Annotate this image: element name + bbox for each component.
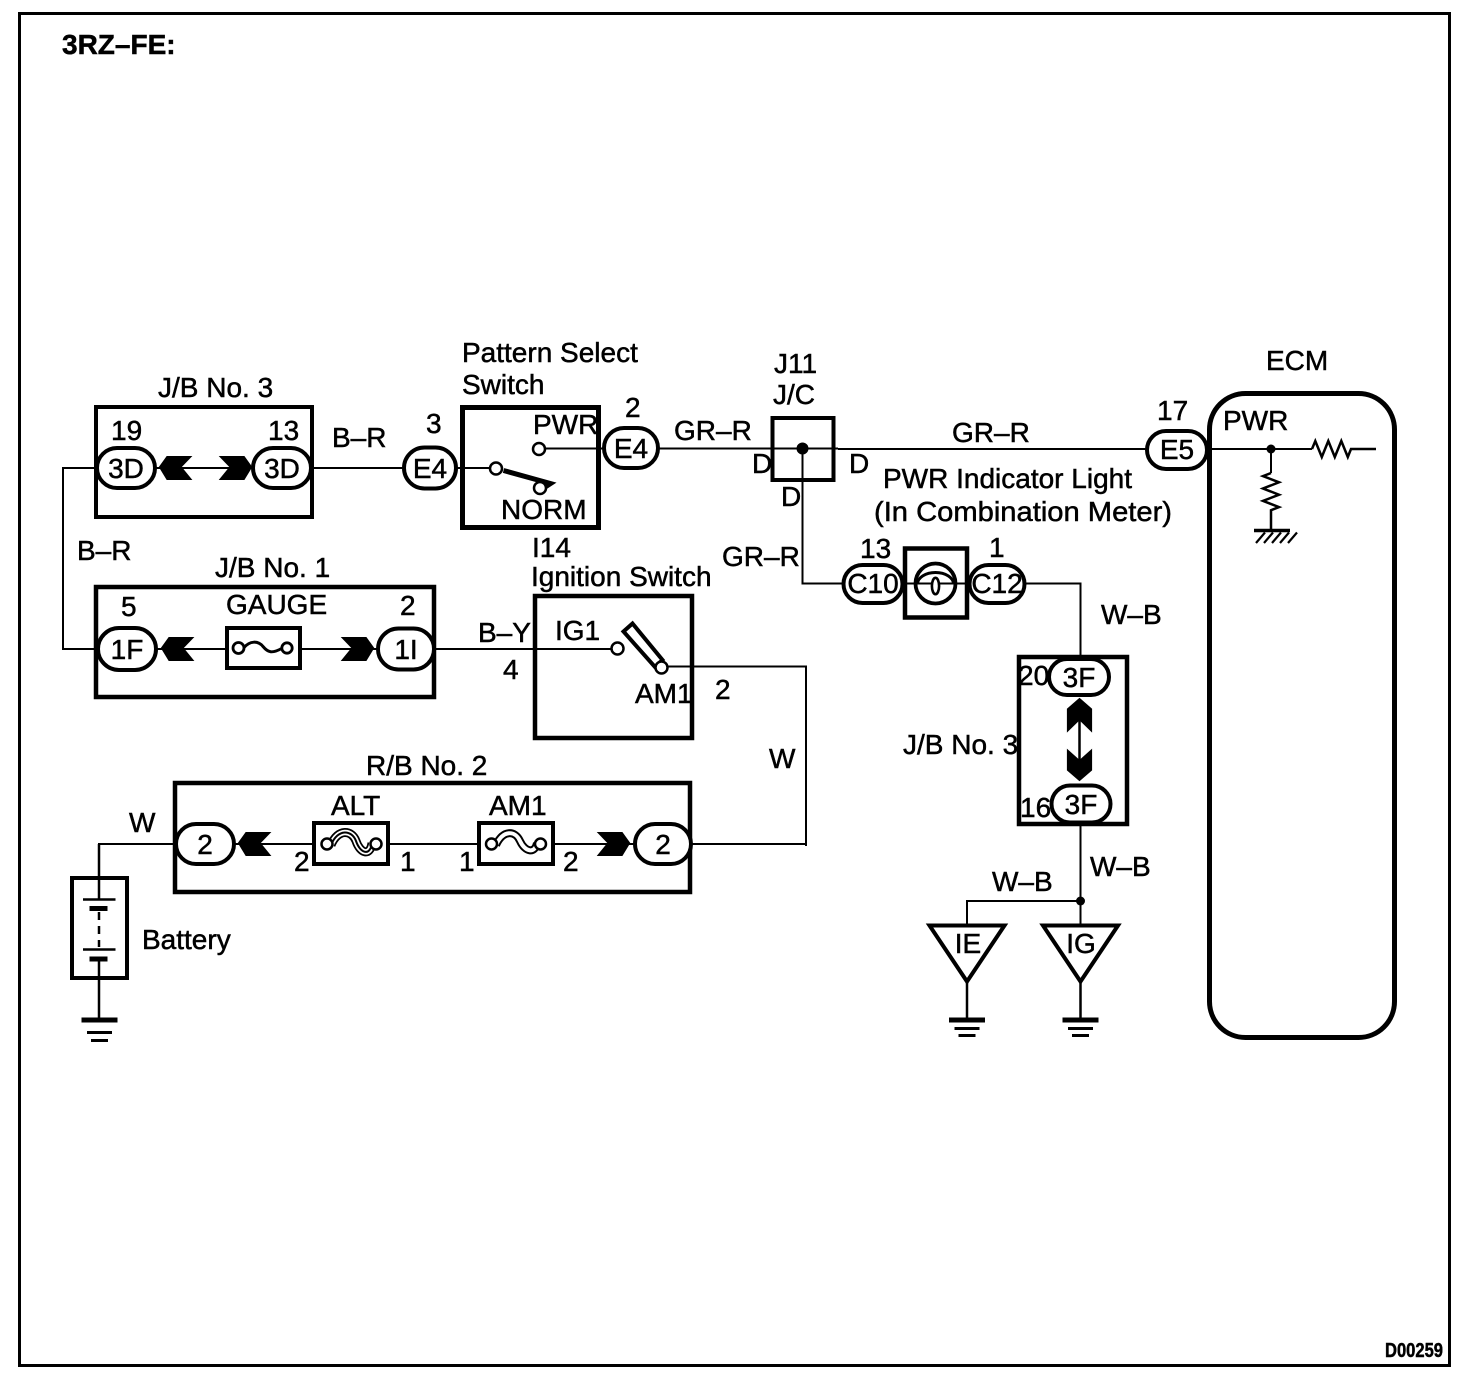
svg-text:1: 1 xyxy=(400,846,416,877)
ALT fusible link element xyxy=(322,832,382,851)
connector C12 xyxy=(970,565,1025,603)
svg-text:B–Y: B–Y xyxy=(478,617,531,648)
wire through J/C xyxy=(773,448,838,450)
bulb box xyxy=(905,549,967,618)
svg-text:GR–R: GR–R xyxy=(674,415,752,446)
svg-text:B–R: B–R xyxy=(77,535,131,566)
arrow left-pointing in J/B No.3 xyxy=(159,456,193,480)
svg-text:2: 2 xyxy=(625,392,641,423)
svg-text:R/B No. 2: R/B No. 2 xyxy=(366,750,487,781)
connector E5 xyxy=(1147,431,1207,469)
svg-text:(In Combination Meter): (In Combination Meter) xyxy=(874,496,1172,527)
wire from J/B No.3 3D left to J/B No.1 1F (B-R) xyxy=(63,468,99,649)
NORM contact circle xyxy=(534,482,546,494)
connector E4 left xyxy=(404,448,456,489)
wire battery to 2 oval (W) xyxy=(99,844,178,899)
ground below IE xyxy=(949,1020,985,1036)
svg-text:2: 2 xyxy=(197,829,213,860)
svg-text:20: 20 xyxy=(1018,660,1049,691)
svg-text:2: 2 xyxy=(400,590,416,621)
PWR contact circle xyxy=(533,443,545,455)
svg-text:ALT: ALT xyxy=(331,790,380,821)
svg-text:AM1: AM1 xyxy=(635,678,693,709)
svg-text:2: 2 xyxy=(563,846,579,877)
svg-text:GR–R: GR–R xyxy=(722,541,800,572)
GAUGE fuse element xyxy=(233,642,292,653)
connector 1F xyxy=(98,628,156,670)
AM1 contact circle xyxy=(656,662,668,674)
wire E5 into ECM xyxy=(1207,448,1312,450)
svg-text:W: W xyxy=(129,807,156,838)
battery internals xyxy=(83,844,116,1019)
J/B No. 3 right box xyxy=(1019,657,1127,824)
ECM box xyxy=(1210,394,1395,1038)
IG ground triangle xyxy=(1043,926,1118,982)
svg-text:D: D xyxy=(752,448,772,479)
svg-text:2: 2 xyxy=(655,829,671,860)
svg-text:Battery: Battery xyxy=(142,924,231,955)
branch wire to IE xyxy=(967,901,1081,926)
wire E4 into switch xyxy=(456,467,491,469)
R/B No. 2 box xyxy=(175,783,690,892)
wire 2 right to vertical W wire xyxy=(691,843,807,845)
AM1 fuse element xyxy=(486,833,546,850)
svg-text:Switch: Switch xyxy=(462,369,544,400)
svg-text:5: 5 xyxy=(121,591,137,622)
wire IG to ground xyxy=(1079,980,1082,1019)
arrow right-pointing in J/B No.1 xyxy=(341,637,375,661)
wire J/C down to C10 (GR-R) xyxy=(803,449,847,584)
svg-text:16: 16 xyxy=(1020,792,1051,823)
junction dot W-B xyxy=(1076,897,1085,906)
connector 2 right xyxy=(635,824,691,864)
ALT fusible link box xyxy=(314,823,388,864)
PWR indicator bulb xyxy=(915,564,956,604)
svg-text:C12: C12 xyxy=(971,568,1022,599)
svg-text:PWR: PWR xyxy=(533,409,598,440)
svg-text:B–R: B–R xyxy=(332,422,386,453)
wire inside R/B No.2 xyxy=(234,843,634,845)
svg-text:2: 2 xyxy=(294,846,310,877)
svg-text:GAUGE: GAUGE xyxy=(226,589,327,620)
svg-text:J11: J11 xyxy=(774,348,817,379)
svg-text:4: 4 xyxy=(503,654,519,685)
switch input contact circle xyxy=(490,463,502,475)
chassis ground in ECM xyxy=(1254,531,1297,544)
junction dot in ECM xyxy=(1267,445,1276,454)
wire C12 to J/B No.3 right (W-B) xyxy=(1024,584,1081,660)
svg-text:13: 13 xyxy=(268,415,299,446)
arrow right-pointing in R/B xyxy=(597,832,631,856)
AM1 fuse box xyxy=(479,823,553,864)
svg-text:J/B No. 3: J/B No. 3 xyxy=(158,372,273,403)
svg-text:3: 3 xyxy=(426,408,442,439)
svg-text:3F: 3F xyxy=(1063,662,1096,693)
svg-text:D: D xyxy=(781,481,801,512)
svg-text:3F: 3F xyxy=(1065,789,1098,820)
J/B No. 3 left box xyxy=(96,407,312,517)
arrow connector line xyxy=(1078,720,1081,760)
arrow left-pointing in R/B xyxy=(238,832,272,856)
Ignition Switch box xyxy=(535,596,692,738)
double arrow up xyxy=(1067,698,1092,733)
connector C10 xyxy=(844,565,903,603)
J/B No. 1 box xyxy=(96,587,434,697)
svg-text:3D: 3D xyxy=(108,453,144,484)
svg-text:IG: IG xyxy=(1066,928,1096,959)
wire inside J/B No.1 xyxy=(156,648,378,650)
connector 3D left xyxy=(97,448,155,488)
IG1 contact circle xyxy=(612,643,624,655)
svg-text:1: 1 xyxy=(459,846,475,877)
svg-text:IE: IE xyxy=(955,928,981,959)
svg-text:W–B: W–B xyxy=(1101,599,1162,630)
svg-text:13: 13 xyxy=(860,533,891,564)
svg-text:E4: E4 xyxy=(614,433,648,464)
svg-text:I14: I14 xyxy=(532,532,571,563)
svg-text:W: W xyxy=(769,743,796,774)
double arrow down xyxy=(1067,749,1092,782)
svg-text:Ignition Switch: Ignition Switch xyxy=(531,561,712,592)
svg-text:19: 19 xyxy=(111,415,142,446)
wire dot down to resistor xyxy=(1270,449,1272,473)
connector E4 right xyxy=(604,428,658,468)
svg-text:AM1: AM1 xyxy=(489,790,547,821)
svg-text:2: 2 xyxy=(715,674,731,705)
wire AM1 to right and down xyxy=(668,667,806,847)
wire inside J/B No.3 between 3D connectors xyxy=(156,467,254,469)
IE ground triangle xyxy=(930,926,1005,982)
svg-text:PWR Indicator Light: PWR Indicator Light xyxy=(883,463,1132,494)
svg-text:NORM: NORM xyxy=(501,494,587,525)
svg-text:J/B No. 3: J/B No. 3 xyxy=(903,729,1018,760)
svg-text:J/B No. 1: J/B No. 1 xyxy=(215,552,330,583)
ignition lever xyxy=(624,624,663,668)
wire IE to ground xyxy=(966,980,969,1019)
wire J/C to E5 (GR-R) xyxy=(838,448,1149,450)
svg-text:W–B: W–B xyxy=(992,866,1053,897)
Pattern Select Switch box xyxy=(463,408,599,528)
battery box xyxy=(72,878,127,978)
svg-text:1F: 1F xyxy=(111,634,144,665)
svg-text:W–B: W–B xyxy=(1090,851,1151,882)
wire 1I to Ignition Switch (B-Y) xyxy=(434,648,612,650)
wire 3D right to E4 (B-R) xyxy=(311,467,406,469)
svg-text:3D: 3D xyxy=(264,453,300,484)
arrow left-pointing in J/B No.1 xyxy=(161,637,195,661)
switch lever xyxy=(504,471,551,491)
svg-text:GR–R: GR–R xyxy=(952,417,1030,448)
svg-text:17: 17 xyxy=(1157,395,1188,426)
junction block J/C box xyxy=(773,418,834,480)
svg-text:PWR: PWR xyxy=(1223,405,1288,436)
resistor vertical xyxy=(1263,473,1279,529)
svg-text:ECM: ECM xyxy=(1266,345,1328,376)
svg-text:D: D xyxy=(849,448,869,479)
svg-text:3RZ–FE:: 3RZ–FE: xyxy=(62,29,176,60)
GAUGE fuse box xyxy=(227,628,300,668)
wire E4 to J/C (GR-R) xyxy=(658,448,773,450)
connector 3F bottom xyxy=(1052,786,1111,823)
connector 2 left xyxy=(176,824,234,864)
junction dot in J/C xyxy=(797,443,809,455)
wire 3F down (W-B) xyxy=(1080,823,1082,925)
resistor horizontal xyxy=(1312,441,1376,457)
ground below IG xyxy=(1063,1020,1099,1036)
connector 3D right xyxy=(253,448,311,488)
arrow right-pointing in J/B No.3 xyxy=(219,456,253,480)
svg-text:1: 1 xyxy=(989,532,1005,563)
wire PWR contact to E4 right xyxy=(546,448,606,450)
svg-text:E4: E4 xyxy=(413,453,447,484)
svg-text:1I: 1I xyxy=(394,634,417,665)
wire through bulb box xyxy=(905,583,967,585)
svg-text:Pattern Select: Pattern Select xyxy=(462,337,638,368)
connector 3F top xyxy=(1049,659,1109,695)
svg-text:IG1: IG1 xyxy=(555,615,600,646)
svg-text:D00259: D00259 xyxy=(1385,1340,1443,1362)
svg-text:C10: C10 xyxy=(847,568,898,599)
svg-text:E5: E5 xyxy=(1160,434,1194,465)
svg-text:J/C: J/C xyxy=(773,379,815,410)
connector 1I xyxy=(378,629,434,670)
ground below battery xyxy=(82,1020,118,1041)
